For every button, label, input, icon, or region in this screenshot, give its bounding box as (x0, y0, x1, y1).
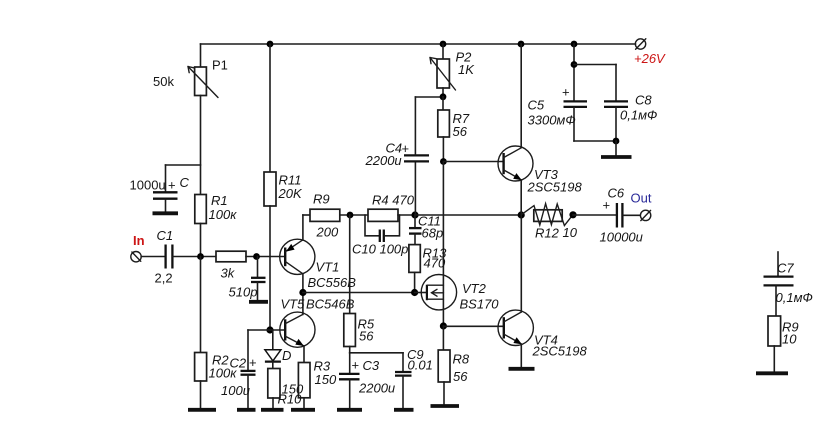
capacitor C1 (166, 245, 173, 269)
svg-text:C6: C6 (608, 186, 625, 201)
terminal Out (640, 210, 650, 220)
ground C9 (394, 408, 414, 412)
svg-text:3300мФ: 3300мФ (528, 113, 576, 128)
svg-text:C10 100p: C10 100p (352, 242, 408, 257)
wire corner to R9 (303, 214, 310, 216)
wire R2 to ground (200, 381, 202, 409)
capacitor C11 (409, 215, 422, 245)
ground C3 (337, 408, 362, 412)
node rail-C5 (571, 41, 578, 48)
wire VT5 emitter to R3 (303, 346, 305, 363)
node rail-VT3 (518, 41, 525, 48)
resistor R10 (268, 369, 280, 409)
resistor R2 (195, 353, 207, 382)
ground C5/C8 (601, 155, 632, 159)
resistor 3k (216, 251, 246, 262)
resistor R3 (298, 363, 310, 409)
wire C1 to 3k (173, 256, 216, 258)
svg-text:C3: C3 (363, 358, 380, 373)
svg-text:VT5: VT5 (281, 297, 306, 312)
svg-text:P1: P1 (212, 58, 228, 73)
resistor R9 (310, 209, 340, 221)
capacitor C 1000u (153, 165, 201, 212)
svg-text:R4 470: R4 470 (372, 193, 415, 208)
svg-text:3k: 3k (221, 266, 236, 281)
ground 510p (249, 300, 268, 304)
wire R7 node down to VT2 drain (442, 162, 444, 327)
svg-text:C: C (180, 175, 190, 190)
node rail-R11 (267, 41, 274, 48)
wire top supply rail (201, 43, 636, 45)
svg-text:R9: R9 (313, 192, 330, 207)
svg-text:1000u: 1000u (130, 178, 166, 193)
svg-text:Out: Out (631, 191, 652, 206)
resistor R7 (438, 97, 450, 162)
wire VT4 base (443, 325, 503, 327)
ground VT4 (509, 367, 535, 371)
svg-text:0.01: 0.01 (408, 358, 433, 373)
svg-text:+: + (249, 355, 257, 370)
wire P1 to R1 (200, 96, 202, 195)
wire In to C1 (141, 256, 164, 258)
svg-text:50k: 50k (153, 74, 174, 89)
svg-text:In: In (133, 233, 145, 248)
svg-text:10: 10 (782, 332, 797, 347)
svg-text:C7: C7 (777, 261, 794, 276)
node VT2 source/R8/VT4 (440, 322, 447, 329)
svg-text:0,1мФ: 0,1мФ (620, 108, 657, 123)
svg-text:C1: C1 (157, 228, 174, 243)
svg-text:R8: R8 (453, 352, 470, 367)
svg-text:100u: 100u (221, 383, 250, 398)
svg-text:+26V: +26V (634, 51, 666, 66)
capacitor 510p (251, 257, 266, 300)
svg-text:C2: C2 (230, 356, 247, 371)
wire feedback rail (303, 292, 415, 294)
resistor R8 (438, 326, 450, 404)
svg-text:+: + (402, 141, 410, 156)
wire 3k to VT1 base (246, 256, 285, 258)
capacitor C2 (241, 330, 271, 409)
wire R5 to C9 (350, 352, 403, 354)
capacitor C10 (365, 215, 400, 242)
svg-text:0,1мФ: 0,1мФ (776, 290, 813, 305)
terminal In (131, 252, 141, 262)
wire gate (415, 292, 427, 294)
svg-text:+: + (168, 178, 176, 193)
svg-text:68p: 68p (422, 226, 444, 241)
node C1/R1/R2 (197, 253, 204, 260)
transistor VT4 (498, 310, 533, 345)
capacitor C9 (395, 353, 412, 409)
svg-text:+: + (562, 85, 570, 100)
svg-text:200: 200 (316, 225, 339, 240)
svg-text:R10: R10 (278, 392, 303, 407)
wire output rail (415, 214, 521, 216)
svg-text:BC546B: BC546B (306, 297, 355, 312)
resistor R12 (522, 204, 574, 226)
svg-text:56: 56 (359, 329, 374, 344)
node 510p (253, 253, 260, 260)
wire VT3 base (443, 161, 503, 163)
svg-text:2200u: 2200u (358, 381, 395, 396)
svg-text:150: 150 (315, 372, 337, 387)
diode D (265, 330, 281, 369)
svg-text:2SC5198: 2SC5198 (527, 180, 583, 195)
wire C5/C8 top (574, 64, 616, 66)
node feedback rail left (299, 289, 306, 296)
transistor VT5 (280, 312, 315, 347)
node C5 top (571, 61, 578, 68)
svg-text:2200u: 2200u (365, 153, 402, 168)
wire VT3 collector (520, 44, 522, 148)
ground R8 (431, 404, 460, 408)
wire VT3 emitter (520, 180, 522, 215)
svg-text:56: 56 (453, 369, 468, 384)
potentiometer P1 (188, 44, 218, 98)
wire VT5 base (270, 329, 285, 331)
wire VT1 emitter up (302, 215, 304, 240)
ground C1000u (153, 211, 179, 215)
ground R2 (188, 408, 216, 412)
wire to ground (615, 141, 617, 155)
node R12 out (569, 211, 576, 218)
svg-text:56: 56 (453, 124, 468, 139)
wire R1 to node (200, 224, 202, 257)
terminal +26V (635, 39, 646, 49)
ground R3 (291, 408, 315, 412)
resistor R11 (264, 44, 276, 330)
resistor R5 (344, 215, 356, 353)
resistor R13 (409, 245, 420, 293)
node C8 bottom (613, 138, 620, 145)
wire VT1/VT5 collectors (302, 274, 304, 315)
svg-text:20K: 20K (278, 186, 303, 201)
svg-text:C5: C5 (528, 98, 545, 113)
capacitor C5 (564, 44, 588, 141)
wire C5/C8 bottom (574, 140, 616, 142)
wire R4 to node (398, 214, 415, 216)
transistor VT3 (498, 146, 533, 181)
svg-text:R1: R1 (211, 193, 228, 208)
svg-text:470: 470 (424, 256, 446, 271)
svg-text:C8: C8 (635, 93, 652, 108)
capacitor C3 (339, 353, 360, 409)
node VT5 base (266, 326, 273, 333)
ground C7 branch (756, 371, 788, 375)
node VT3/VT4 (518, 211, 525, 218)
node R4/C4/C11 (411, 211, 418, 218)
resistor R1 (195, 195, 207, 224)
svg-text:VT2: VT2 (462, 281, 487, 296)
potentiometer P2 (430, 44, 456, 97)
transistor VT1 (280, 239, 315, 274)
svg-text:10000u: 10000u (600, 230, 643, 245)
resistor R4 (368, 209, 398, 221)
svg-text:D: D (282, 348, 291, 363)
svg-text:510p: 510p (229, 285, 258, 300)
svg-text:+: + (352, 358, 360, 373)
svg-text:2,2: 2,2 (155, 271, 173, 286)
wire C4 top to P2 bottom (415, 96, 443, 98)
capacitor C7 (764, 252, 794, 316)
node R7/VT3base (440, 158, 447, 165)
capacitor C4 (404, 97, 429, 215)
ground C2 (237, 408, 256, 412)
node P2/C4/R7 (440, 93, 447, 100)
svg-text:1K: 1K (458, 62, 475, 77)
ground R10 (261, 408, 284, 412)
node R13/VT2 gate (411, 289, 418, 296)
transistor VT2 (421, 275, 456, 310)
wire VT4 collector (520, 215, 522, 312)
svg-text:VT1: VT1 (316, 260, 340, 275)
node rail-P2 (440, 41, 447, 48)
svg-text:2SC5198: 2SC5198 (532, 344, 588, 359)
svg-text:100к: 100к (209, 207, 238, 222)
capacitor C8 (604, 65, 628, 142)
resistor R9b (768, 316, 781, 371)
wire node to R2 (200, 257, 202, 354)
wire R12 to C6 (573, 214, 617, 216)
svg-text:10: 10 (563, 225, 578, 240)
wire R9 to node (340, 214, 368, 216)
svg-text:BS170: BS170 (460, 297, 500, 312)
svg-text:R12: R12 (535, 226, 560, 241)
capacitor C6 (617, 203, 640, 228)
wire VT4 emitter (520, 344, 522, 367)
node R9/R4/R5 (347, 212, 354, 219)
